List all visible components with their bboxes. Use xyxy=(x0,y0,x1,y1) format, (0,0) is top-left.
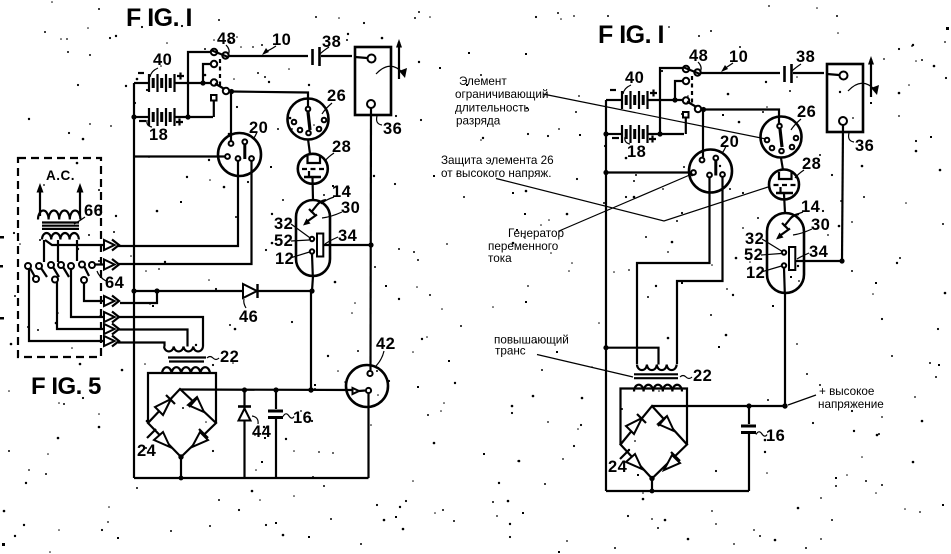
wire switch down to magneto 20 (right) xyxy=(702,110,704,157)
svg-text:36: 36 xyxy=(855,137,874,155)
svg-text:32: 32 xyxy=(274,215,293,233)
battery 40 (right) xyxy=(606,90,686,110)
bottom return wire xyxy=(134,477,369,479)
wire arrow5 to transformer xyxy=(118,330,188,347)
output arrow 2 xyxy=(94,259,119,270)
wire switch down to magneto 20 xyxy=(230,92,232,141)
wire 20 pin to transformer right (right) xyxy=(677,177,723,364)
label 14 xyxy=(321,183,352,204)
label 52 xyxy=(274,232,309,250)
svg-text:20: 20 xyxy=(720,133,739,151)
regulator tube 28 xyxy=(298,154,328,184)
svg-text:F IG. I: F IG. I xyxy=(126,4,192,32)
svg-text:12: 12 xyxy=(275,250,294,268)
svg-text:52: 52 xyxy=(744,246,763,264)
magneto 20 xyxy=(218,133,261,176)
battery 18 xyxy=(131,108,213,126)
wire 26 to 28 xyxy=(308,139,310,154)
label 30 xyxy=(322,199,360,218)
label 52 (right) xyxy=(744,246,781,264)
svg-text:40: 40 xyxy=(625,69,644,87)
distributor 26 xyxy=(288,99,329,140)
annotation: element limiting discharge duration xyxy=(455,75,766,139)
svg-text:14: 14 xyxy=(801,198,821,216)
label 10 xyxy=(262,31,291,55)
svg-text:Элемент: Элемент xyxy=(459,75,507,88)
wire 20 pin to transformer left (right) xyxy=(637,177,710,364)
label 24 (right) xyxy=(608,458,628,476)
wire tube bottom to rectifier bus xyxy=(309,276,314,389)
svg-text:тока: тока xyxy=(488,252,512,265)
wire tube bottom down (right) xyxy=(784,293,786,406)
bridge bottom junction xyxy=(178,454,183,480)
label 24 xyxy=(137,442,157,460)
label 44 xyxy=(252,416,272,441)
svg-text:52: 52 xyxy=(274,232,293,250)
svg-text:64: 64 xyxy=(105,274,125,292)
output arrow 4 xyxy=(71,269,119,323)
svg-text:A.C.: A.C. xyxy=(46,168,75,183)
output arrow 5 xyxy=(57,282,119,335)
secondary taps xyxy=(44,240,77,262)
label 64 xyxy=(97,271,125,292)
rectifier box outline xyxy=(148,373,216,423)
wire arrow6 to transformer xyxy=(118,343,165,347)
svg-text:40: 40 xyxy=(153,51,172,69)
label 32 (right) xyxy=(745,230,782,251)
RIGHT-FIG1 xyxy=(441,21,884,493)
svg-text:транс: транс xyxy=(495,345,526,358)
annotation: protection of element 26 xyxy=(441,154,768,221)
high voltage wire 36 to 42 xyxy=(369,108,372,370)
svg-text:разряда: разряда xyxy=(456,115,501,128)
diode 46 wire xyxy=(131,288,310,293)
svg-text:42: 42 xyxy=(376,335,395,353)
svg-text:66: 66 xyxy=(84,202,103,220)
transformer 66 primary xyxy=(38,211,80,220)
label 34 xyxy=(325,227,358,245)
transformer 22 core (right) xyxy=(634,374,678,378)
diode 46 xyxy=(243,284,258,298)
label 26 xyxy=(322,87,346,114)
svg-text:36: 36 xyxy=(383,120,402,138)
label 34 (right) xyxy=(797,243,829,261)
label 32 xyxy=(274,215,310,238)
bridge diode bottom-left xyxy=(147,429,170,447)
battery 18 (right) xyxy=(603,125,684,143)
capacitor 38 (right) xyxy=(785,64,825,83)
svg-text:34: 34 xyxy=(809,243,829,261)
bridge diode bottom-right xyxy=(192,429,208,447)
label 18 (right) xyxy=(625,137,647,161)
svg-text:26: 26 xyxy=(327,87,346,105)
wire 42 bottom xyxy=(367,394,369,479)
diode 44 xyxy=(238,390,251,478)
label 22 xyxy=(207,348,239,366)
discharge tube 14 (right) xyxy=(767,213,804,293)
svg-text:18: 18 xyxy=(627,143,646,161)
wire switch to distributor 26 (right) xyxy=(704,110,780,124)
distributor 26 (right) xyxy=(761,117,802,158)
discharge tube 14 xyxy=(296,200,330,276)
transformer 22 core xyxy=(168,358,206,362)
svg-text:ограничивающий: ограничивающий xyxy=(455,88,548,101)
DC bus wire (right) xyxy=(652,403,788,408)
wire arrow3 to diode wire xyxy=(120,291,157,303)
switch 48 xyxy=(185,49,234,120)
label 38 xyxy=(320,33,341,54)
output socket 42 xyxy=(346,365,388,407)
label 40 xyxy=(150,51,172,77)
svg-text:44: 44 xyxy=(252,423,272,441)
high voltage wire 36 down (right) xyxy=(842,125,843,261)
negative bus wire (right vertical) xyxy=(605,100,607,491)
transformer 22 primary xyxy=(164,347,203,352)
wire switch to distributor 26 xyxy=(232,92,309,107)
capacitor 38 xyxy=(313,47,353,66)
wire magneto 20 from bus xyxy=(134,155,225,157)
svg-text:26: 26 xyxy=(797,103,816,121)
negative bus wire (left vertical) xyxy=(133,83,135,478)
svg-text:Генератор: Генератор xyxy=(508,227,564,240)
svg-text:46: 46 xyxy=(239,308,258,326)
FIG.5 dashed enclosure xyxy=(18,158,101,357)
svg-text:16: 16 xyxy=(293,409,312,427)
svg-text:38: 38 xyxy=(322,33,341,51)
svg-text:24: 24 xyxy=(137,442,157,460)
bridge diode top-left xyxy=(155,395,175,415)
bridge bottom junction (right) xyxy=(649,476,654,494)
svg-text:30: 30 xyxy=(811,216,830,234)
label 12 xyxy=(275,250,310,268)
label 48 xyxy=(217,30,236,55)
selector switch 64 contacts xyxy=(25,262,95,284)
svg-text:18: 18 xyxy=(149,126,168,144)
svg-text:F IG. I: F IG. I xyxy=(598,21,664,49)
wire 28 to tube 14 xyxy=(311,178,314,200)
label 48 (right) xyxy=(689,47,708,72)
label 16 (right) xyxy=(756,427,785,445)
wire 28 to tube 14 (right) xyxy=(784,194,785,213)
label 10 (right) xyxy=(721,48,748,72)
spark gap 36 xyxy=(355,39,407,115)
wire arrow4 to transformer xyxy=(118,317,203,347)
svg-text:F IG. 5: F IG. 5 xyxy=(31,373,101,400)
main wire 10 xyxy=(228,55,308,57)
label 20 (right) xyxy=(720,133,739,153)
label 46 xyxy=(239,299,258,326)
label 66 xyxy=(74,202,103,224)
svg-text:30: 30 xyxy=(341,199,360,217)
spark gap 36 (right) xyxy=(827,56,879,132)
bridge diode bottom-right (right) xyxy=(664,452,680,470)
capacitor 16 (right) xyxy=(741,406,756,491)
label 38 (right) xyxy=(792,48,815,71)
svg-text:38: 38 xyxy=(796,48,815,66)
label 28 xyxy=(325,138,351,161)
rectifier diamond 24 xyxy=(148,389,216,457)
main wire 10 (right) xyxy=(701,72,780,74)
bridge diode top-right (right) xyxy=(658,416,674,431)
label 12 (right) xyxy=(746,264,782,282)
DC bus wire xyxy=(180,387,356,392)
wire 20 pin to plug arrow1 xyxy=(118,161,238,246)
wire anode 34 to HV line (right) xyxy=(795,258,844,263)
rectifier box outline (right) xyxy=(621,389,688,445)
svg-text:28: 28 xyxy=(332,138,351,156)
svg-text:12: 12 xyxy=(746,264,765,282)
svg-text:34: 34 xyxy=(338,227,358,245)
label 26 (right) xyxy=(791,103,816,130)
svg-text:24: 24 xyxy=(608,458,628,476)
label 20 xyxy=(249,119,268,139)
regulator tube 28 (right) xyxy=(769,170,799,200)
wire 26 to 28 (right) xyxy=(781,158,783,170)
svg-text:16: 16 xyxy=(766,427,785,445)
label 18 xyxy=(147,120,169,144)
transformer 66 core xyxy=(42,223,79,229)
svg-text:20: 20 xyxy=(249,119,268,137)
LEFT-FIG1 xyxy=(18,4,407,480)
battery 40 xyxy=(134,73,214,93)
wire bus to transformer middle tap (right) xyxy=(603,345,658,364)
bridge diode bottom-left (right) xyxy=(620,450,642,469)
label 28 (right) xyxy=(795,155,821,178)
rectifier diamond 24 (right) xyxy=(621,406,688,479)
annotation: step-up transformer xyxy=(494,334,633,378)
transformer 66 input arrows xyxy=(37,183,84,216)
label 36 xyxy=(377,116,403,138)
label 36 (right) xyxy=(849,133,875,155)
svg-text:22: 22 xyxy=(693,367,712,385)
bottom return wire (right) xyxy=(606,490,749,492)
annotation: + high voltage xyxy=(788,385,884,411)
bridge diode top-left (right) xyxy=(626,414,646,434)
wire anode 34 to HV line xyxy=(323,242,373,247)
switch 48 (right) xyxy=(657,66,706,137)
svg-text:длительность: длительность xyxy=(455,102,530,115)
label 14 (right) xyxy=(790,198,821,219)
svg-text:+ высокое: + высокое xyxy=(819,385,874,398)
bridge diode top-right xyxy=(188,397,204,412)
wire magneto 20 from bus (right) xyxy=(603,170,691,175)
wire 20 pin to plug arrow2 xyxy=(118,161,252,264)
label 22 (right) xyxy=(680,367,712,385)
label 42 xyxy=(375,335,395,367)
transformer 66 secondary xyxy=(42,233,79,240)
transformer 22 primary (right) xyxy=(637,365,677,371)
svg-text:напряжение: напряжение xyxy=(818,398,884,411)
output arrow 1 xyxy=(45,240,119,251)
svg-text:22: 22 xyxy=(220,348,239,366)
label 16 xyxy=(283,409,312,427)
svg-text:28: 28 xyxy=(802,155,821,173)
capacitor 16 xyxy=(268,390,283,478)
svg-text:Защита элемента 26: Защита элемента 26 xyxy=(441,154,554,167)
output arrow 3 xyxy=(84,283,119,307)
output arrow 6 xyxy=(29,269,119,347)
label 40 (right) xyxy=(623,69,644,94)
transformer 22 secondary xyxy=(162,367,210,374)
label 30 (right) xyxy=(793,216,830,235)
annotation: alternating current generator xyxy=(488,174,692,265)
transformer 22 secondary (right) xyxy=(634,385,682,392)
magneto 20 (right) xyxy=(689,150,732,193)
